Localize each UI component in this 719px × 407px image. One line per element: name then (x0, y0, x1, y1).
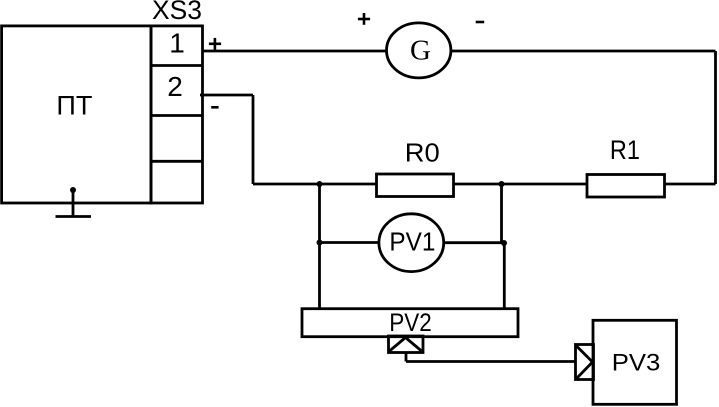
svg-text:PV3: PV3 (612, 350, 661, 377)
svg-text:R1: R1 (610, 135, 640, 165)
svg-text:R0: R0 (405, 138, 440, 168)
svg-text:PV2: PV2 (389, 309, 432, 337)
svg-text:2: 2 (167, 71, 183, 102)
svg-text:PV1: PV1 (389, 227, 435, 257)
svg-text:ПТ: ПТ (56, 90, 92, 120)
svg-text:1: 1 (169, 28, 185, 59)
svg-text:G: G (410, 35, 431, 67)
svg-text:XS3: XS3 (152, 0, 202, 25)
